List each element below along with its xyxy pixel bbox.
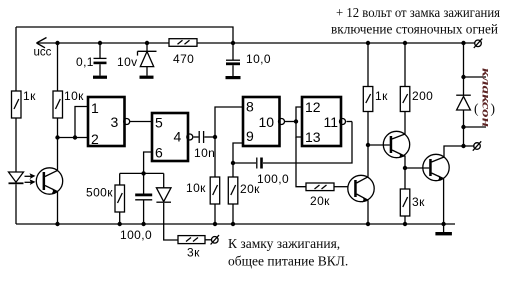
terminal +12 top right [474,39,482,48]
wire Q3 collector to horn node [444,146,475,157]
wire left vertical to R 1k [15,27,17,91]
svg-text:100,0: 100,0 [257,172,289,186]
pin 3 bubble [124,119,130,125]
resistor R 10k mid [186,177,220,204]
svg-text:10к: 10к [64,89,84,103]
wire C 100,0 to pin11 feedback [263,122,352,164]
wire top bypass from node after 470 to 1k top [16,27,233,43]
resistor R 3k vertical [400,189,425,216]
wire +12 rail left of 470 [37,42,170,44]
svg-text:10к: 10к [186,181,206,195]
zener diode 10v [117,43,157,76]
svg-text:клаксон: клаксон [480,68,494,127]
ground under C 0,1 [93,76,107,79]
bottom rail [16,223,455,225]
opto light arrows [25,173,36,185]
ground main [435,224,452,235]
svg-text:200: 200 [412,89,433,103]
svg-text:13: 13 [305,129,321,145]
svg-text:ucc: ucc [34,47,52,59]
capacitor C 100,0 horizontal [257,158,289,187]
svg-text:1: 1 [91,100,99,116]
wire +12 rail right of 470 [197,42,475,44]
node Ucc arrow [37,38,47,48]
wire pins12-13 node down to R 20k horizontal [296,137,306,187]
transistor Q1 [348,175,374,202]
terminal horn bottom [473,141,481,150]
wire node to C 100,0 [233,162,256,164]
svg-text:1к: 1к [23,89,36,103]
svg-text:включение стояночных огней: включение стояночных огней [331,22,498,37]
gate U1.4 box [302,97,341,146]
wire node down to R 10k mid [214,137,216,177]
bottom rail junction dots [55,222,59,226]
wire rail to 10k [57,43,59,91]
svg-text:470: 470 [173,52,194,66]
capacitor C 0,1 [76,43,107,76]
wire pin6 down [144,152,152,173]
wire Q2 collector to R 200 [404,112,406,135]
wire 10k down to node pins 1-2 [57,118,59,138]
resistor R 470 [169,39,197,66]
wire pin3 to pin5 [130,121,152,123]
resistor R 1k right [363,87,388,112]
svg-text:10: 10 [259,114,275,130]
svg-text:9: 9 [246,128,254,144]
wire 10n to node [204,136,215,138]
svg-text:0,1: 0,1 [76,55,94,69]
gate U1.1 box [88,97,125,147]
svg-text:3: 3 [111,114,119,130]
svg-text:12: 12 [305,99,321,115]
svg-text:4: 4 [174,129,182,145]
svg-text:11: 11 [324,114,339,130]
resistor R 10k left [53,89,84,118]
wire node to Q3 base [405,167,429,169]
svg-text:3к: 3к [187,246,200,260]
svg-text:10n: 10n [194,146,215,160]
node Q1 collector dot [366,143,370,147]
wire node to pin8 [215,107,243,137]
wire pin11 out [347,121,353,123]
wire Q2 emitter to node [404,156,407,168]
svg-text:20к: 20к [310,194,330,208]
svg-text:(: ( [474,101,479,116]
resistor R 20k horizontal [306,183,334,208]
svg-text:2: 2 [91,131,99,147]
svg-text:): ) [491,101,496,116]
diode D horn chain [456,43,486,146]
capacitor C 10,0 electrolytic [226,43,271,76]
svg-text:1к: 1к [375,89,388,103]
junction dots on +12 rail [55,41,59,45]
resistor R 3k horizontal [178,236,205,260]
transistor Q2 [383,131,409,158]
wire pin1 tie [75,107,88,138]
svg-text:500к: 500к [86,186,113,200]
pin 10 bubble [279,119,285,125]
svg-text:+ 12 вольт от замка зажигания: + 12 вольт от замка зажигания [336,5,500,20]
resistor R 1k left [12,89,37,118]
wire 20k to Q1 base [334,186,348,188]
wire node to Q2 base [368,144,390,146]
wire 3k to terminal [205,239,212,241]
svg-text:5: 5 [155,115,163,131]
svg-text:100,0: 100,0 [120,228,152,242]
gate U1.2 box [152,113,188,161]
resistor R 500k [86,185,125,212]
svg-text:6: 6 [155,145,163,161]
svg-text:10v: 10v [117,55,138,69]
transistor Q3 [423,154,449,181]
capacitor C 10n [194,131,215,160]
diode D discharge [156,173,178,240]
wire pin10 to pins 12-13 [285,121,297,123]
wire node to box1 pin2 [58,137,89,139]
wire pin4 to C 10n [194,136,199,138]
wire opto emitter to bottom rail [57,192,59,224]
node dots pins1-2 [55,135,59,139]
svg-text:8: 8 [246,99,254,115]
svg-text:3к: 3к [412,195,425,209]
node horn bottom dot [461,144,465,148]
LED of optocoupler [9,172,24,224]
pin 11 bubble [340,119,346,125]
svg-text:общее питание ВКЛ.: общее питание ВКЛ. [228,254,348,269]
svg-text:10,0: 10,0 [246,52,271,66]
svg-text:К замку зажигания,: К замку зажигания, [228,236,340,251]
gate U1.3 box [243,97,280,146]
resistor R 200 [400,87,433,112]
ground under zener [140,76,154,79]
resistor R 20k mid [228,177,260,204]
wire Q3 emitter to rail [443,179,445,224]
phototransistor of optocoupler [36,168,62,194]
wire pin9 to timing node [233,143,243,163]
terminal ignition [211,235,219,244]
wire 1k to LED [15,118,17,172]
pin 4 bubble [187,134,193,140]
wire node down to optocoupler collector [57,138,59,171]
wire Q1 emitter to rail [367,200,369,224]
node dot 10n [213,135,217,139]
ground under C 10,0 [226,76,241,79]
capacitor C 100,0 vertical [120,173,152,242]
wire Q1 collector to node [367,145,369,177]
timing T rail [120,172,164,174]
